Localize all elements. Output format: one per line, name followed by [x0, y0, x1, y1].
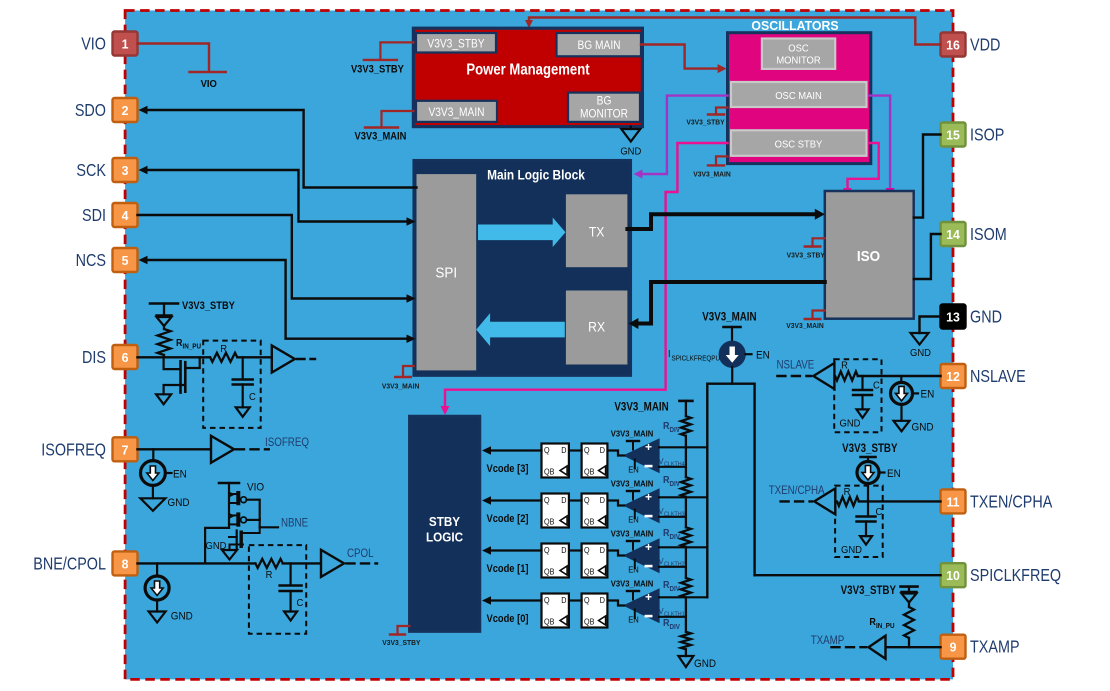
pin 2 SDO	[113, 98, 138, 122]
svg-text:Q: Q	[544, 496, 550, 505]
svg-text:Q: Q	[544, 546, 550, 555]
OSC STBY box	[731, 130, 867, 156]
svg-text:QB: QB	[544, 567, 554, 576]
svg-text:GND: GND	[171, 611, 193, 623]
wire comparator output to flip-flop	[607, 451, 624, 456]
ground (NMOS source)	[222, 550, 237, 560]
wire between flip-flops	[569, 549, 582, 551]
svg-text:12: 12	[946, 370, 960, 384]
VIO supply rail	[190, 71, 226, 74]
resistor RIN_PU (DIS)	[163, 326, 165, 329]
svg-text:R: R	[841, 360, 848, 372]
blue arrow RX to SPI	[476, 313, 565, 346]
svg-text:Vcode [0]: Vcode [0]	[487, 613, 529, 625]
svg-text:DIV: DIV	[670, 481, 681, 488]
svg-text:6: 6	[122, 351, 129, 365]
flip-flop A (Vcode [2])	[542, 494, 569, 528]
flip-flop B (Vcode [2])	[582, 494, 608, 528]
wire ISO to pin 14 ISOM	[914, 234, 941, 279]
svg-text:Vcode [2]: Vcode [2]	[487, 513, 529, 525]
svg-text:GND: GND	[694, 659, 716, 671]
svg-text:14: 14	[946, 228, 960, 242]
svg-text:1: 1	[122, 37, 129, 51]
svg-text:R: R	[844, 487, 851, 499]
capacitor C (TXEN)	[867, 501, 869, 515]
svg-text:V3V3_STBY: V3V3_STBY	[382, 639, 420, 647]
svg-text:QB: QB	[584, 617, 594, 626]
svg-text:GND: GND	[910, 348, 931, 360]
svg-text:Vcode [1]: Vcode [1]	[487, 563, 529, 575]
svg-text:D: D	[561, 546, 567, 555]
main logic block	[414, 160, 631, 375]
flip-flop B (Vcode [1])	[582, 544, 608, 578]
OSC MAIN box	[731, 82, 867, 107]
pin 11 TXEN/CPHA	[941, 489, 966, 513]
NBNE gate rail	[247, 500, 260, 528]
wire BNE/CPOL pin 8	[138, 562, 256, 564]
wire flip-flop to STBY logic (Vcode [2])	[489, 499, 542, 501]
svg-text:9: 9	[950, 640, 957, 654]
svg-text:V3V3_MAIN: V3V3_MAIN	[611, 479, 654, 488]
wire VDD pin16 to Power Management (dark red)	[529, 18, 941, 45]
pin 14 ISOM	[941, 222, 966, 246]
svg-text:V3V3_MAIN: V3V3_MAIN	[382, 382, 419, 390]
buffer (CPOL)	[321, 550, 344, 577]
pin 5 NCS	[113, 248, 138, 272]
RC dashed box (NSLAVE)	[834, 359, 881, 432]
svg-text:OSC STBY: OSC STBY	[775, 139, 823, 151]
svg-text:C: C	[876, 507, 883, 519]
svg-text:2: 2	[122, 104, 129, 118]
svg-text:EN: EN	[887, 469, 901, 481]
buffer (NSLAVE)	[813, 363, 834, 389]
V3V3_STBY output box	[416, 33, 496, 53]
resistor RDIV 5	[681, 632, 691, 649]
ground (DIS filter cap)	[236, 407, 250, 417]
svg-text:15: 15	[946, 128, 960, 142]
pin 3 SCK	[113, 158, 138, 182]
capacitor C (NSLAVE)	[861, 376, 863, 389]
NMOS pulldown (DIS)	[164, 357, 180, 369]
resistor RDIV 3	[681, 527, 691, 547]
svg-text:VDD: VDD	[970, 35, 1000, 55]
resistor R (CPOL filter)	[255, 559, 282, 568]
VIO supply (NBNE switch)	[219, 482, 239, 485]
pin 4 SDI	[113, 203, 138, 227]
buffer (TXAMP)	[869, 636, 886, 659]
RX box	[566, 291, 628, 365]
svg-text:5: 5	[122, 254, 129, 268]
diode (TXAMP pull-up)	[908, 587, 910, 592]
svg-text:Q: Q	[584, 546, 590, 555]
svg-text:LOGIC: LOGIC	[426, 530, 463, 545]
V3V3_STBY supply (TXAMP pull-up)	[901, 585, 918, 588]
pin 16 VDD	[941, 33, 966, 57]
capacitor C (CPOL filter)	[290, 563, 292, 584]
wire DIS pin 6	[138, 356, 211, 358]
svg-text:V3V3_MAIN: V3V3_MAIN	[693, 170, 730, 178]
svg-text:7: 7	[122, 443, 129, 457]
svg-text:Q: Q	[584, 496, 590, 505]
resistor R (NSLAVE)	[835, 372, 858, 381]
current source (BNE)	[156, 563, 158, 576]
svg-text:C: C	[249, 392, 256, 404]
wire comparator - input to ladder tap	[659, 466, 686, 468]
V3V3_STBY supply (left of power management)	[380, 42, 413, 60]
ground (CPOL filter cap)	[284, 612, 297, 621]
chip boundary (dashed red border, blue interior)	[125, 11, 953, 680]
ground (ISOFREQ current source)	[140, 498, 165, 511]
svg-text:QB: QB	[544, 467, 554, 476]
pin 9 TXAMP	[941, 635, 966, 659]
wire NCS: pin 5 to SPI	[146, 260, 408, 339]
svg-text:DIV: DIV	[670, 624, 681, 631]
RC filter dashed box (DIS)	[203, 341, 261, 428]
buffer (ISOFREQ)	[211, 436, 234, 463]
pin 13 GND	[941, 305, 966, 329]
wire flip-flop to STBY logic (Vcode [0])	[489, 599, 542, 601]
svg-text:TXAMP: TXAMP	[970, 637, 1020, 657]
wire TXAMP pin 9	[885, 646, 941, 648]
svg-text:VIO: VIO	[247, 482, 264, 494]
svg-text:C: C	[297, 598, 304, 610]
svg-text:GND: GND	[912, 422, 934, 434]
svg-text:DIV: DIV	[670, 427, 681, 434]
svg-text:V3V3_STBY: V3V3_STBY	[787, 251, 825, 259]
svg-text:V3V3_STBY: V3V3_STBY	[427, 38, 485, 51]
ISO block	[825, 191, 914, 319]
wire SPICLKFREQ pin 10	[755, 574, 941, 576]
svg-text:EN: EN	[921, 389, 935, 401]
diode (DIS pull-up)	[163, 304, 165, 316]
svg-text:QB: QB	[584, 467, 594, 476]
PMOS pair (NBNE)	[228, 483, 230, 528]
current source (TXEN) with EN	[857, 462, 879, 484]
svg-text:SPICLKFREQ: SPICLKFREQ	[970, 566, 1061, 586]
svg-text:CPOL: CPOL	[347, 547, 374, 560]
pin 12 NSLAVE	[941, 364, 966, 388]
svg-text:SPI: SPI	[435, 265, 457, 282]
wire comparator + input to SPICLKFREQ rail	[659, 496, 707, 498]
wire comparator - input to ladder tap	[659, 566, 686, 568]
thick wire ISO to RX	[637, 282, 825, 324]
svg-text:D: D	[561, 496, 567, 505]
svg-text:D: D	[561, 596, 567, 605]
wire OSC STBY to STBY logic (pink)	[445, 143, 728, 408]
svg-text:R: R	[869, 617, 876, 629]
svg-text:D: D	[600, 546, 606, 555]
svg-text:BNE/CPOL: BNE/CPOL	[33, 554, 106, 574]
svg-text:11: 11	[946, 495, 959, 509]
pin 1 VIO	[113, 32, 138, 56]
wire BG MAIN to oscillators (dark red)	[641, 45, 719, 69]
resistor RIN_PU (TXAMP)	[908, 603, 910, 608]
svg-text:Q: Q	[584, 596, 590, 605]
flip-flop B (Vcode [3])	[582, 444, 608, 478]
current source (NSLAVE) with EN	[900, 376, 902, 383]
comparator (V_CLKTH1)	[624, 589, 659, 623]
svg-text:+: +	[645, 440, 652, 454]
wire NBNE node to BNE wire	[205, 528, 229, 564]
svg-text:NSLAVE: NSLAVE	[970, 367, 1026, 387]
svg-text:DIV: DIV	[670, 586, 681, 593]
svg-text:ISOM: ISOM	[970, 225, 1007, 245]
svg-text:NBNE: NBNE	[281, 517, 308, 530]
resistor RDIV 2	[681, 477, 691, 497]
svg-text:BG MAIN: BG MAIN	[577, 39, 620, 52]
ladder wire	[685, 401, 687, 416]
comparator (V_CLKTH3)	[624, 489, 659, 523]
svg-text:R: R	[266, 570, 273, 582]
svg-text:V3V3_MAIN: V3V3_MAIN	[702, 311, 756, 324]
SPI box	[417, 174, 477, 370]
pin 15 ISOP	[941, 123, 966, 147]
ground (NSLAVE current source)	[894, 421, 910, 432]
svg-text:V3V3_MAIN: V3V3_MAIN	[354, 131, 406, 143]
svg-text:EN: EN	[173, 469, 187, 481]
wire comparator output to flip-flop	[607, 501, 624, 506]
svg-text:Q: Q	[544, 446, 550, 455]
svg-text:8: 8	[122, 557, 129, 571]
wire current source to comparator rail and pin 10	[731, 367, 733, 383]
svg-text:STBY: STBY	[429, 514, 461, 529]
V3V3_MAIN supply (oscillators bottom-left)	[716, 156, 728, 165]
svg-text:NSLAVE: NSLAVE	[777, 359, 815, 372]
svg-text:C: C	[873, 380, 880, 392]
V3V3_MAIN supply (ISO left, lower)	[813, 311, 825, 320]
svg-text:I: I	[668, 349, 670, 361]
wire comparator - input to ladder tap	[659, 616, 686, 618]
wire TXEN/CPHA pin 11	[859, 500, 941, 502]
svg-text:V3V3_STBY: V3V3_STBY	[351, 64, 404, 76]
svg-text:V3V3_STBY: V3V3_STBY	[841, 584, 896, 597]
buffer (TXEN)	[814, 488, 835, 514]
svg-text:OSC: OSC	[788, 43, 808, 55]
svg-text:SDI: SDI	[82, 206, 106, 226]
wire between flip-flops	[569, 599, 582, 601]
V3V3_MAIN supply (left of power management)	[382, 111, 414, 128]
pin 8 BNE/CPOL	[113, 551, 138, 575]
svg-text:EN: EN	[756, 350, 770, 362]
ground below power management	[630, 127, 632, 129]
svg-text:DIS: DIS	[82, 348, 106, 368]
svg-text:Main Logic Block: Main Logic Block	[487, 167, 586, 183]
ground (TXEN cap)	[860, 536, 872, 545]
svg-text:10: 10	[946, 569, 960, 583]
svg-text:+: +	[645, 490, 652, 504]
svg-text:GND: GND	[970, 307, 1002, 327]
svg-text:GND: GND	[841, 545, 862, 557]
svg-text:QB: QB	[544, 617, 554, 626]
V3V3_MAIN supply (below SPI)	[403, 366, 414, 377]
V3V3_MAIN output box	[416, 101, 497, 122]
resistor R (DIS filter)	[210, 353, 237, 362]
svg-text:V3V3_MAIN: V3V3_MAIN	[611, 529, 654, 538]
svg-text:D: D	[600, 446, 606, 455]
svg-text:GND: GND	[168, 498, 190, 510]
flip-flop A (Vcode [0])	[542, 594, 569, 628]
wire OSC MAIN to ISO (purple, right)	[869, 96, 890, 189]
svg-text:VIO: VIO	[81, 34, 106, 54]
ground (DIS NMOS)	[156, 394, 171, 404]
svg-text:DIV: DIV	[670, 534, 681, 541]
wire comparator output to flip-flop	[607, 601, 624, 606]
svg-text:GND: GND	[840, 418, 861, 430]
wire SDO: SPI to pin 2	[146, 110, 417, 188]
wire ISOFREQ pin 7	[138, 448, 212, 450]
NMOS (NBNE)	[236, 531, 238, 549]
buffer (DIS)	[272, 346, 295, 373]
svg-text:TXEN/CPHA: TXEN/CPHA	[970, 492, 1052, 512]
svg-text:SDO: SDO	[75, 101, 106, 121]
svg-text:+: +	[645, 540, 652, 554]
svg-text:QB: QB	[544, 517, 554, 526]
wire VIO pin1 to VIO rail	[138, 44, 210, 71]
svg-text:EN: EN	[628, 615, 639, 624]
TX box	[566, 194, 628, 267]
wire comparator + input to SPICLKFREQ rail	[659, 596, 707, 598]
thick wire TX to ISO	[627, 214, 816, 229]
svg-text:Power Management: Power Management	[466, 61, 589, 78]
svg-text:13: 13	[946, 310, 960, 324]
wire OSC MAIN to main logic block (purple)	[642, 96, 728, 174]
svg-text:Q: Q	[544, 596, 550, 605]
svg-text:SCK: SCK	[76, 161, 106, 181]
svg-text:Q: Q	[584, 446, 590, 455]
V3V3_STBY supply (ISO left)	[813, 238, 825, 246]
svg-text:GND: GND	[206, 541, 227, 553]
wire SDI: pin 4 to SPI	[138, 215, 409, 299]
svg-text:MONITOR: MONITOR	[776, 55, 820, 67]
BG MONITOR box	[568, 93, 640, 122]
flip-flop B (Vcode [0])	[582, 594, 608, 628]
wire comparator + input to SPICLKFREQ rail	[659, 446, 707, 448]
svg-text:4: 4	[122, 209, 129, 223]
wire NSLAVE pin 12	[858, 375, 941, 377]
comparator (V_CLKTH4)	[624, 439, 659, 473]
ground (NSLAVE cap)	[857, 409, 869, 418]
BG MAIN box	[557, 33, 642, 56]
svg-text:3: 3	[122, 164, 129, 178]
capacitor C (DIS filter)	[242, 357, 244, 378]
svg-text:BG: BG	[597, 95, 612, 108]
svg-text:IN_PU: IN_PU	[183, 343, 202, 350]
resistor RDIV 4	[681, 578, 691, 598]
ground (ladder)	[678, 656, 693, 667]
flip-flop A (Vcode [3])	[542, 444, 569, 478]
svg-text:TXEN/CPHA: TXEN/CPHA	[769, 484, 826, 497]
EN input (comparator 3)	[634, 510, 636, 519]
svg-text:ISOFREQ: ISOFREQ	[41, 440, 106, 460]
svg-text:IN_PU: IN_PU	[876, 623, 895, 630]
EN input (comparator 2)	[634, 560, 636, 569]
svg-text:D: D	[561, 446, 567, 455]
svg-text:+: +	[645, 590, 652, 604]
svg-text:EN: EN	[628, 465, 639, 474]
svg-text:VIO: VIO	[201, 79, 217, 91]
EN input (comparator 1)	[634, 610, 636, 619]
current source I_SPICLKFREQPU	[719, 341, 745, 367]
svg-text:OSC MAIN: OSC MAIN	[775, 91, 822, 103]
svg-text:EN: EN	[628, 515, 639, 524]
svg-text:V3V3_MAIN: V3V3_MAIN	[428, 106, 484, 119]
wire pin 13 GND termination	[920, 317, 941, 334]
svg-text:GND: GND	[620, 146, 641, 158]
wire SCK: pin 3 to SPI	[146, 170, 408, 222]
svg-text:OSCILLATORS: OSCILLATORS	[751, 19, 838, 33]
svg-text:SPICLKFREQPU: SPICLKFREQPU	[672, 355, 721, 362]
svg-text:R: R	[220, 344, 227, 356]
svg-text:16: 16	[946, 38, 960, 52]
svg-text:NCS: NCS	[76, 251, 106, 271]
svg-text:TXAMP: TXAMP	[811, 634, 845, 647]
V3V3_STBY supply (oscillators left)	[716, 108, 728, 115]
V3V3_STBY supply rail (DIS pull-up)	[150, 302, 178, 305]
EN input (comparator 4)	[634, 460, 636, 469]
svg-text:V3V3_MAIN: V3V3_MAIN	[611, 429, 654, 438]
pin 10 SPICLKFREQ	[941, 563, 966, 587]
svg-text:RX: RX	[588, 319, 605, 335]
V3V3_STBY supply (STBY logic)	[398, 626, 410, 635]
oscillators block	[728, 33, 871, 164]
svg-text:TX: TX	[589, 224, 605, 240]
pin 6 DIS	[113, 345, 138, 369]
wire between flip-flops	[569, 449, 582, 451]
svg-text:D: D	[600, 596, 606, 605]
svg-text:D: D	[600, 496, 606, 505]
svg-text:V3V3_STBY: V3V3_STBY	[182, 300, 235, 312]
wire between flip-flops	[569, 499, 582, 501]
wire OSC STBY to ISO (pink, right)	[848, 143, 879, 189]
resistor R (TXEN)	[837, 497, 859, 506]
wire flip-flop to STBY logic (Vcode [3])	[489, 449, 542, 451]
svg-text:ISOFREQ: ISOFREQ	[265, 436, 309, 449]
svg-text:V3V3_MAIN: V3V3_MAIN	[611, 579, 654, 588]
svg-text:V3V3_MAIN: V3V3_MAIN	[614, 401, 668, 414]
RC dashed box (TXEN)	[835, 486, 883, 557]
current source (ISOFREQ) with EN	[152, 449, 154, 460]
svg-text:MONITOR: MONITOR	[580, 108, 628, 121]
OSC MONITOR box	[762, 39, 835, 69]
wire ISO to pin 15 ISOP	[914, 135, 941, 218]
svg-text:V3V3_STBY: V3V3_STBY	[686, 118, 724, 126]
RC filter dashed box (CPOL)	[249, 545, 306, 634]
power management block	[413, 28, 642, 126]
svg-text:V3V3_STBY: V3V3_STBY	[842, 442, 897, 455]
blue arrow SPI to TX	[478, 218, 566, 248]
resistor RDIV 1	[681, 416, 691, 436]
svg-text:QB: QB	[584, 517, 594, 526]
wire comparator + input to SPICLKFREQ rail	[659, 546, 707, 548]
wire flip-flop to STBY logic (Vcode [1])	[489, 549, 542, 551]
svg-text:EN: EN	[628, 565, 639, 574]
wire comparator output to flip-flop	[607, 551, 624, 556]
ground (BNE current source)	[149, 612, 166, 623]
svg-text:ISO: ISO	[857, 248, 880, 265]
comparator (V_CLKTH2)	[624, 539, 659, 573]
wire comparator - input to ladder tap	[659, 516, 686, 518]
svg-text:V3V3_MAIN: V3V3_MAIN	[786, 322, 823, 330]
svg-text:Vcode [3]: Vcode [3]	[487, 463, 529, 475]
pin 7 ISOFREQ	[113, 437, 138, 461]
svg-text:QB: QB	[584, 567, 594, 576]
svg-text:ISOP: ISOP	[970, 125, 1004, 145]
STBY logic block	[409, 416, 480, 632]
flip-flop A (Vcode [1])	[542, 544, 569, 578]
